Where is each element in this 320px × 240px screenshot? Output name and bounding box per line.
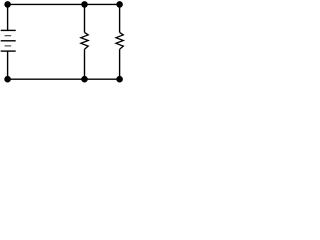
wire resistor R2 top lead	[119, 4, 121, 32]
battery B1	[1, 30, 16, 51]
node top-left junction	[4, 1, 11, 8]
wire bottom rail	[8, 78, 120, 80]
node bottom-left junction	[4, 76, 11, 83]
wire resistor R2 bottom lead	[119, 49, 121, 79]
node top-middle junction	[81, 1, 88, 8]
wire resistor R1 top lead	[84, 4, 86, 32]
node bottom-middle junction	[81, 76, 88, 83]
wire resistor R1 bottom lead	[84, 49, 86, 79]
resistor R1	[81, 32, 88, 49]
wire battery bottom lead	[7, 51, 9, 79]
node bottom-right junction	[116, 76, 123, 83]
node top-right junction	[116, 1, 123, 8]
wire top rail	[8, 3, 120, 5]
resistor R2	[116, 32, 123, 49]
wire battery top lead	[7, 4, 9, 30]
